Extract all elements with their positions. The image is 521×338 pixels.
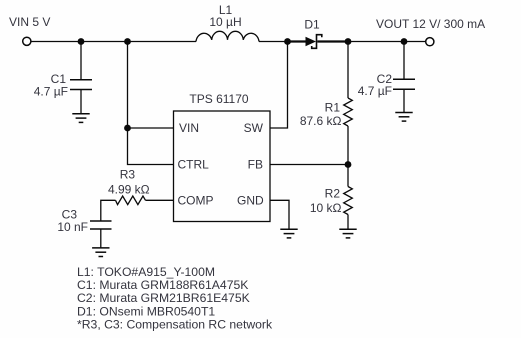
svg-text:VIN 5 V: VIN 5 V <box>9 15 50 29</box>
wire VOUT node to output terminal <box>348 41 426 43</box>
svg-text:R2: R2 <box>325 187 341 201</box>
inductor L1 <box>196 31 259 41</box>
svg-text:R3: R3 <box>120 168 136 182</box>
svg-text:4.7 µF: 4.7 µF <box>34 84 68 98</box>
svg-text:87.6 kΩ: 87.6 kΩ <box>300 114 342 128</box>
wire R1 top <box>347 42 349 99</box>
resistor R1 <box>344 98 353 126</box>
ground C3 <box>92 247 109 249</box>
diode D1 (Schottky) <box>306 37 317 47</box>
svg-text:*R3, C3: Compensation RC netwo: *R3, C3: Compensation RC network <box>77 317 273 331</box>
svg-text:VIN: VIN <box>179 121 199 135</box>
wire C1 bottom <box>80 90 82 114</box>
capacitor C3 <box>90 220 112 222</box>
svg-text:D1: ONsemi MBR0540T1: D1: ONsemi MBR0540T1 <box>77 304 215 318</box>
svg-text:FB: FB <box>248 158 263 172</box>
node C1 junction dot <box>78 38 85 45</box>
wire GND pin <box>270 200 289 229</box>
ground C2 <box>395 112 412 114</box>
svg-text:L1: TOKO#A915_Y-100M: L1: TOKO#A915_Y-100M <box>77 265 215 279</box>
wire FB pin to divider <box>270 164 348 166</box>
svg-text:COMP: COMP <box>178 193 214 207</box>
wire VIN/CTRL vertical feed <box>128 42 174 165</box>
svg-text:D1: D1 <box>304 18 320 32</box>
node VIN pin junction dot <box>124 125 131 132</box>
ground C1 <box>72 113 89 115</box>
svg-text:4.7 µF: 4.7 µF <box>358 84 392 98</box>
wire diode cathode to VOUT node (bold) <box>317 40 348 42</box>
svg-text:GND: GND <box>237 193 264 207</box>
terminal VIN input circle <box>23 37 31 45</box>
resistor R2 <box>344 187 353 215</box>
svg-text:CTRL: CTRL <box>178 158 210 172</box>
svg-text:C2: Murata GRM21BR61E475K: C2: Murata GRM21BR61E475K <box>77 291 250 305</box>
wire C3 bottom <box>100 229 102 248</box>
wire R1 to FB node <box>347 126 349 165</box>
node VOUT junction dot <box>345 38 352 45</box>
wire top rail left (input to inductor) <box>31 41 196 43</box>
svg-text:4.99 kΩ: 4.99 kΩ <box>108 182 150 196</box>
svg-text:TPS 61170: TPS 61170 <box>189 92 248 106</box>
svg-text:R1: R1 <box>325 101 341 115</box>
wire SW node to diode anode (bold) <box>288 40 307 42</box>
wire C2 bottom <box>403 89 405 112</box>
wire VIN pin <box>128 127 174 129</box>
svg-text:C1: Murata GRM188R61A475K: C1: Murata GRM188R61A475K <box>77 278 248 292</box>
wire SW pin to top rail <box>270 42 288 129</box>
capacitor C1 <box>70 79 92 81</box>
terminal VOUT output circle <box>426 38 434 46</box>
wire inductor to SW node <box>259 41 288 43</box>
wire R2 to ground <box>347 215 349 230</box>
ground GND pin <box>280 228 297 230</box>
node VIN/CTRL feed junction dot <box>124 38 131 45</box>
node SW junction dot <box>284 38 291 45</box>
ground R2 <box>339 228 356 230</box>
wire C2 top <box>403 42 405 80</box>
svg-text:10 kΩ: 10 kΩ <box>310 201 342 215</box>
svg-text:SW: SW <box>244 121 264 135</box>
node FB junction dot <box>345 161 352 168</box>
wire COMP pin to R3 <box>146 199 174 201</box>
resistor R3 <box>116 196 146 205</box>
wire C1 top <box>80 42 82 80</box>
op-amp U1 TPS61170 box <box>174 111 271 222</box>
wire R3 to C3 <box>101 200 116 221</box>
node C2 junction dot <box>401 38 408 45</box>
capacitor C2 <box>393 78 415 80</box>
svg-text:VOUT 12 V/ 300 mA: VOUT 12 V/ 300 mA <box>376 17 485 31</box>
wire FB node to R2 <box>347 165 349 187</box>
svg-text:10 µH: 10 µH <box>209 15 241 29</box>
svg-text:10 nF: 10 nF <box>57 220 88 234</box>
